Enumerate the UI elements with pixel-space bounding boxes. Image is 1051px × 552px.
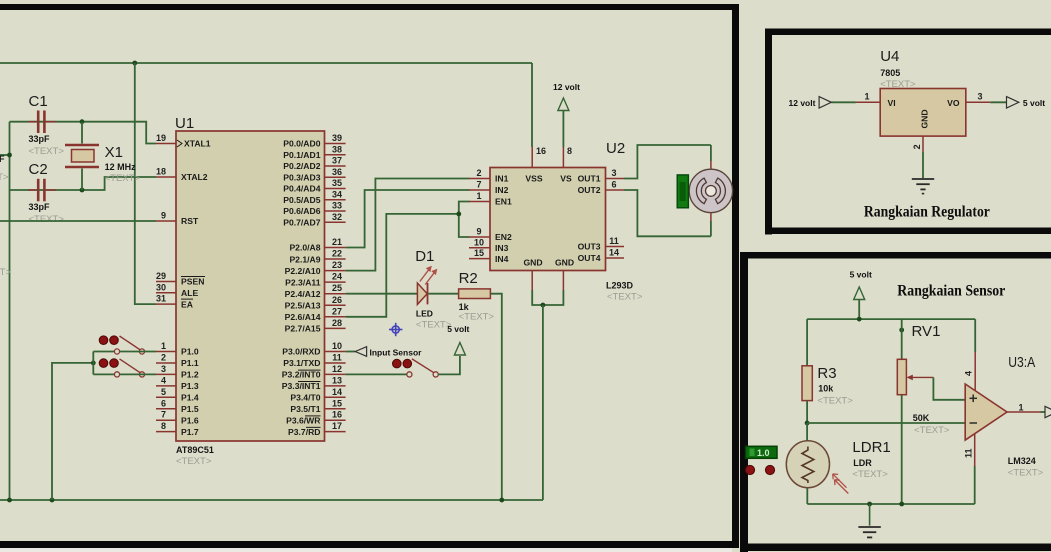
svg-text:P2.2/A10: P2.2/A10 <box>285 266 321 276</box>
svg-text:21: 21 <box>332 237 342 247</box>
svg-text:4: 4 <box>964 371 974 376</box>
wire C2 row to XTAL2 <box>10 177 157 190</box>
U1 pin 33 P0.6/AD6 <box>283 201 345 217</box>
U1 pin 16 P3.6/WR <box>286 410 345 426</box>
ground symbol regulator <box>912 179 934 194</box>
svg-text:31: 31 <box>156 294 166 304</box>
U1 pin 23 P2.2/A10 <box>285 260 346 276</box>
op-amp U3:A LM324 <box>965 354 1043 479</box>
node crystal bottom <box>80 188 85 193</box>
wire RV1 wiper to +input <box>933 377 965 399</box>
svg-text:2: 2 <box>912 144 922 149</box>
svg-text:<TEXT>: <TEXT> <box>880 79 916 90</box>
U1 pin 17 P3.7/RD <box>288 421 346 437</box>
terminal Input Sensor on P3.0 <box>346 347 423 358</box>
wire RV1 top lead <box>901 319 903 359</box>
node switch common <box>91 361 96 366</box>
svg-text:2: 2 <box>161 352 166 362</box>
svg-text:26: 26 <box>332 295 342 305</box>
svg-text:U1: U1 <box>175 115 194 132</box>
wire OUT1 to motor <box>624 145 711 179</box>
U1 pin 24 P2.3/A11 <box>285 272 345 288</box>
svg-text:12: 12 <box>332 364 342 374</box>
U1 pin 10 P3.0/RXD <box>282 341 345 357</box>
node EN junction <box>456 212 461 217</box>
svg-text:11: 11 <box>964 448 974 458</box>
svg-text:10: 10 <box>332 341 342 351</box>
svg-text:P1.7: P1.7 <box>181 427 199 437</box>
svg-text:<TEXT>: <TEXT> <box>852 469 888 480</box>
svg-text:P2.5/A13: P2.5/A13 <box>285 300 321 310</box>
svg-text:23: 23 <box>332 260 342 270</box>
U1 pin 6 P1.5 <box>156 398 199 414</box>
svg-text:OUT4: OUT4 <box>578 253 601 263</box>
node RV1 bottom <box>899 502 904 507</box>
U1 pin 4 P1.3 <box>156 375 199 391</box>
U1 pin 39 P0.0/AD0 <box>283 133 345 149</box>
svg-text:IN2: IN2 <box>495 185 509 195</box>
svg-text:32: 32 <box>332 212 342 222</box>
wire R3 bottom to node <box>806 401 808 423</box>
U3 GND pins <box>523 258 574 291</box>
svg-text:P0.4/AD4: P0.4/AD4 <box>283 184 320 194</box>
U1 pin 14 P3.4/T0 <box>290 387 345 403</box>
svg-text:<TEXT>: <TEXT> <box>914 425 950 436</box>
U1 pin 29 PSEN <box>156 271 205 287</box>
svg-text:U4: U4 <box>880 48 899 65</box>
svg-text:<TEXT>: <TEXT> <box>0 172 9 183</box>
svg-text:VO: VO <box>947 98 960 108</box>
wire LED cathode to R2 <box>428 293 458 295</box>
wire ground bottom rail <box>0 499 543 501</box>
wire R3 top lead <box>806 319 808 366</box>
svg-text:P1.2: P1.2 <box>181 370 199 380</box>
svg-text:P2.3/A11: P2.3/A11 <box>285 277 321 287</box>
U1 pin 25 P2.4/A12 <box>285 283 346 299</box>
svg-text:5 volt: 5 volt <box>447 324 469 334</box>
svg-text:IN4: IN4 <box>495 254 509 264</box>
wire switch ground vertical <box>52 363 93 500</box>
potentiometer RV1 <box>897 323 950 436</box>
U1 pin 28 P2.7/A15 <box>285 318 346 334</box>
svg-text:7: 7 <box>161 410 166 420</box>
switch SW3 (P3.2 to 5 volt) <box>393 359 439 377</box>
svg-text:1: 1 <box>864 92 869 102</box>
wire P2.2 to IN1 <box>346 179 470 271</box>
svg-text:ALE: ALE <box>181 288 198 298</box>
svg-text:LDR1: LDR1 <box>852 439 890 456</box>
svg-text:L293D: L293D <box>606 281 634 291</box>
svg-text:34: 34 <box>332 189 342 199</box>
node inverting input row <box>805 421 810 426</box>
wire VCC top rail <box>0 62 532 64</box>
wire left cap bus vertical <box>9 122 11 500</box>
svg-text:39: 39 <box>332 133 342 143</box>
U1 pin 7 P1.6 <box>156 410 199 426</box>
svg-text:30: 30 <box>156 282 166 292</box>
svg-text:<TEXT>: <TEXT> <box>459 312 495 323</box>
svg-text:LM324: LM324 <box>1008 456 1036 466</box>
U1 pin 27 P2.6/A14 <box>285 306 346 322</box>
U4 pin 2 GND wire <box>912 136 923 178</box>
regulator box frame <box>765 29 1051 235</box>
svg-text:14: 14 <box>332 387 342 397</box>
U3 pin 10 IN3 <box>469 237 509 253</box>
svg-text:EN2: EN2 <box>495 232 512 242</box>
origin marker <box>389 323 402 336</box>
svg-text:Rangkaian Sensor: Rangkaian Sensor <box>897 283 1005 300</box>
U1 pin 11 P3.1/TXD <box>283 352 345 368</box>
svg-text:U3:A: U3:A <box>1008 354 1035 371</box>
svg-text:19: 19 <box>156 133 166 143</box>
svg-text:R3: R3 <box>817 365 836 382</box>
svg-text:6: 6 <box>611 180 616 190</box>
svg-text:9: 9 <box>161 211 166 221</box>
U1 pin 2 P1.1 <box>156 352 199 368</box>
regulator U4 7805 body <box>880 48 966 136</box>
svg-text:LED: LED <box>416 309 433 319</box>
svg-text:11: 11 <box>332 352 342 362</box>
svg-text:P2.0/A8: P2.0/A8 <box>289 243 320 253</box>
wire crystal vertical leads <box>81 122 83 144</box>
U1 pin 34 P0.5/AD5 <box>283 189 345 205</box>
U1 pin 18 XTAL2 <box>156 167 208 183</box>
U1 pin 26 P2.5/A13 <box>285 295 346 311</box>
U1 pin 15 P3.5/T1 <box>290 398 345 414</box>
U1 pin 32 P0.7/AD7 <box>283 212 345 228</box>
wire P2.6 to EN junction <box>346 214 459 317</box>
svg-text:RST: RST <box>181 216 199 226</box>
U1 pin 37 P0.2/AD2 <box>283 156 345 172</box>
svg-text:<TEXT>: <TEXT> <box>105 173 141 184</box>
svg-text:3: 3 <box>161 364 166 374</box>
LED D1 <box>415 248 452 331</box>
ground symbol sensor <box>858 504 880 537</box>
svg-text:38: 38 <box>332 144 342 154</box>
svg-text:8: 8 <box>567 146 572 156</box>
svg-text:3: 3 <box>611 168 616 178</box>
wire EN1 branch <box>459 202 470 214</box>
U3 pin 16 VSS <box>525 146 546 184</box>
svg-text:D1: D1 <box>415 248 434 265</box>
svg-text:GND: GND <box>555 258 574 268</box>
resistor R2 <box>459 270 495 323</box>
svg-text:1.0: 1.0 <box>757 448 770 458</box>
wire P3.2 to switch3 <box>346 373 407 375</box>
svg-text:22: 22 <box>332 249 342 259</box>
svg-text:12 volt: 12 volt <box>789 98 816 108</box>
svg-text:1: 1 <box>1019 403 1024 413</box>
svg-text:<TEXT>: <TEXT> <box>0 267 11 278</box>
svg-text:LDR: LDR <box>853 458 872 468</box>
svg-text:36: 36 <box>332 167 342 177</box>
wire RV1 bottom lead <box>901 395 903 504</box>
U4 pin 1 VI wire <box>831 92 880 103</box>
svg-text:EN1: EN1 <box>495 197 512 207</box>
svg-text:R2: R2 <box>459 270 478 287</box>
node switch bus to ground rail <box>50 498 55 503</box>
svg-text:15: 15 <box>332 398 342 408</box>
svg-text:VSS: VSS <box>525 174 542 184</box>
crystal X1 <box>65 144 140 184</box>
node cap bus to ground rail <box>7 498 12 503</box>
svg-text:18: 18 <box>156 167 166 177</box>
svg-text:X1: X1 <box>105 144 123 161</box>
svg-text:<TEXT>: <TEXT> <box>29 214 65 225</box>
wire switch2 right to pin <box>120 373 156 375</box>
wire P2.0 to IN2 <box>346 190 470 248</box>
svg-text:OUT1: OUT1 <box>578 174 601 184</box>
U4 pin 3 VO wire <box>966 92 1007 103</box>
wire node to LDR top <box>806 423 808 441</box>
svg-text:15: 15 <box>474 248 484 258</box>
svg-text:OUT2: OUT2 <box>578 185 601 195</box>
svg-text:AT89C51: AT89C51 <box>176 445 214 455</box>
wire switch1 to P1.0 <box>93 351 114 353</box>
U3 pin 15 IN4 <box>469 248 509 264</box>
svg-text:7: 7 <box>476 180 481 190</box>
wire motor top lead <box>710 145 712 161</box>
svg-text:GND: GND <box>523 258 542 268</box>
svg-text:33pF: 33pF <box>0 154 5 164</box>
svg-text:P0.2/AD2: P0.2/AD2 <box>283 161 320 171</box>
U1 pin 35 P0.4/AD4 <box>283 178 345 194</box>
U1 pin 3 P1.2 <box>156 364 199 380</box>
wire GND pins join <box>532 290 563 305</box>
svg-text:P2.1/A9: P2.1/A9 <box>289 254 320 264</box>
svg-text:P0.5/AD5: P0.5/AD5 <box>283 195 320 205</box>
svg-text:Input Sensor: Input Sensor <box>370 347 423 357</box>
svg-text:P3.5/T1: P3.5/T1 <box>290 404 320 414</box>
svg-text:16: 16 <box>536 146 546 156</box>
wire switch common vertical <box>92 352 94 375</box>
driver U3 L293D body <box>490 168 643 303</box>
motor encoder strip <box>677 175 688 208</box>
U1 pin 8 P1.7 <box>156 421 199 437</box>
terminal 12 volt input <box>789 97 832 108</box>
svg-text:C2: C2 <box>29 161 48 178</box>
U3:A pin 11 ground <box>964 434 975 505</box>
sensor box frame <box>740 252 1051 552</box>
svg-text:XTAL2: XTAL2 <box>181 172 208 182</box>
microcontroller U1 AT89C51 body <box>175 115 325 467</box>
svg-text:1: 1 <box>161 341 166 351</box>
svg-text:P0.1/AD1: P0.1/AD1 <box>283 150 320 160</box>
svg-text:C1: C1 <box>29 93 48 110</box>
wire EA vertical <box>135 63 156 304</box>
U3 pin 14 OUT4 <box>578 248 624 264</box>
wire switch2 to P1.2 <box>93 373 114 375</box>
U3 pin 3 OUT1 <box>578 168 624 184</box>
svg-text:IN3: IN3 <box>495 243 509 253</box>
svg-text:P1.4: P1.4 <box>181 393 199 403</box>
wire LDR bottom <box>806 489 808 505</box>
U3 pin 8 VS <box>560 146 572 184</box>
svg-text:VS: VS <box>560 174 572 184</box>
power 5 volt arrow sensor <box>850 270 872 320</box>
svg-text:24: 24 <box>332 272 342 282</box>
wire EN2 branch <box>459 214 470 237</box>
wire switch1 right to pin <box>120 351 156 353</box>
wire R2 to ground rail <box>490 294 501 500</box>
U3 pin 11 OUT3 <box>578 236 624 252</box>
svg-text:P2.4/A12: P2.4/A12 <box>285 289 321 299</box>
U1 pin 36 P0.3/AD3 <box>283 167 345 183</box>
wire driver ground drop <box>542 305 544 500</box>
wire OUT2 to motor <box>624 190 711 236</box>
svg-text:P3.4/T0: P3.4/T0 <box>290 393 320 403</box>
svg-text:7805: 7805 <box>880 68 900 78</box>
node junction top rail to EA <box>132 61 137 66</box>
U3:A pin 4 power <box>964 319 976 390</box>
resistor R3 <box>802 365 853 407</box>
U3 pin 2 IN1 <box>469 168 509 184</box>
svg-text:RV1: RV1 <box>912 323 941 340</box>
switch SW2 (P1.2) <box>99 359 144 377</box>
svg-text:2: 2 <box>476 168 481 178</box>
svg-text:P0.7/AD7: P0.7/AD7 <box>283 217 320 227</box>
svg-text:P1.0: P1.0 <box>181 347 199 357</box>
svg-text:P0.6/AD6: P0.6/AD6 <box>283 206 320 216</box>
svg-text:P3.7/RD: P3.7/RD <box>288 427 320 437</box>
node R2 ground <box>499 498 504 503</box>
svg-text:25: 25 <box>332 283 342 293</box>
svg-text:P0.0/AD0: P0.0/AD0 <box>283 139 320 149</box>
terminal output right edge <box>1045 406 1051 417</box>
svg-text:6: 6 <box>161 398 166 408</box>
svg-text:27: 27 <box>332 306 342 316</box>
svg-text:50K: 50K <box>913 413 930 423</box>
svg-text:P2.6/A14: P2.6/A14 <box>285 312 321 322</box>
svg-text:1: 1 <box>476 191 481 201</box>
U1 pin 31 EA <box>156 294 193 310</box>
U1 pin 22 P2.1/A9 <box>289 249 345 265</box>
svg-text:GND: GND <box>920 109 930 128</box>
svg-text:4: 4 <box>161 375 166 385</box>
wire switch3 to 5volt <box>438 356 460 374</box>
node GND join <box>541 303 546 308</box>
main schematic frame border <box>0 4 739 552</box>
node cap bus stub to offscreen <box>0 154 10 156</box>
U3 pin 7 IN2 <box>469 180 509 196</box>
wire C1 row to XTAL1 <box>10 122 157 144</box>
svg-text:33: 33 <box>332 201 342 211</box>
wire sensor bottom rail <box>807 503 974 505</box>
U3:A pin 1 output <box>1007 403 1045 413</box>
svg-text:16: 16 <box>332 410 342 420</box>
U1 pin 9 RST <box>156 211 199 227</box>
svg-text:IN1: IN1 <box>495 174 509 184</box>
svg-text:P1.6: P1.6 <box>181 415 199 425</box>
svg-text:33pF: 33pF <box>29 134 51 144</box>
U1 pin 13 P3.3/INT1 <box>282 375 346 391</box>
capacitor C1 <box>28 93 64 157</box>
switch SW1 (P1.0) <box>99 336 144 354</box>
node 5volt to rail <box>857 317 862 322</box>
U1 pin 30 ALE <box>156 282 198 298</box>
svg-text:12 MHz: 12 MHz <box>105 162 137 172</box>
power 12 volt arrow <box>553 82 580 147</box>
power 5 volt arrow (switch) <box>447 324 469 355</box>
node RV1 top <box>899 328 904 333</box>
U1 pin 21 P2.0/A8 <box>289 237 345 253</box>
svg-text:P3.0/RXD: P3.0/RXD <box>282 347 320 357</box>
svg-text:<TEXT>: <TEXT> <box>176 456 212 467</box>
svg-text:P1.5: P1.5 <box>181 404 199 414</box>
svg-text:12 volt: 12 volt <box>553 82 580 92</box>
svg-text:P3.1/TXD: P3.1/TXD <box>283 358 320 368</box>
svg-text:P3.3/INT1: P3.3/INT1 <box>282 381 321 391</box>
partial offscreen capacitor labels <box>0 154 11 278</box>
svg-text:P2.7/A15: P2.7/A15 <box>285 324 321 334</box>
terminal 5 volt output <box>1007 97 1046 108</box>
svg-text:<TEXT>: <TEXT> <box>817 396 853 407</box>
svg-text:5 volt: 5 volt <box>1023 98 1045 108</box>
svg-text:10: 10 <box>474 237 484 247</box>
U3 pin 6 OUT2 <box>578 180 624 196</box>
svg-text:OUT3: OUT3 <box>578 242 601 252</box>
svg-text:37: 37 <box>332 156 342 166</box>
motor U2 <box>606 140 733 213</box>
svg-text:3: 3 <box>978 92 983 102</box>
svg-text:29: 29 <box>156 271 166 281</box>
wire inverting input row <box>807 422 965 424</box>
wire motor bottom lead <box>710 212 712 221</box>
svg-text:<TEXT>: <TEXT> <box>1008 468 1044 479</box>
wire P2.4 to LED anode <box>346 293 418 295</box>
U1 pin 19 XTAL1 <box>156 133 211 149</box>
svg-text:33pF: 33pF <box>29 202 51 212</box>
svg-text:<TEXT>: <TEXT> <box>29 146 65 157</box>
node ground stem <box>867 502 872 507</box>
svg-text:1k: 1k <box>459 302 470 312</box>
svg-text:VI: VI <box>888 98 896 108</box>
svg-text:XTAL1: XTAL1 <box>184 139 211 149</box>
svg-text:28: 28 <box>332 318 342 328</box>
svg-text:PSEN: PSEN <box>181 277 204 287</box>
svg-text:P3.2/INT0: P3.2/INT0 <box>282 370 321 380</box>
capacitor C2 <box>28 161 64 225</box>
U3 pin 9 EN2 <box>469 227 512 243</box>
svg-text:P0.3/AD3: P0.3/AD3 <box>283 172 320 182</box>
wire sensor top rail <box>807 318 975 320</box>
svg-text:5: 5 <box>161 387 166 397</box>
svg-text:13: 13 <box>332 375 342 385</box>
U1 pin 1 P1.0 <box>156 341 199 357</box>
indicator red dots <box>745 465 774 474</box>
svg-text:P1.3: P1.3 <box>181 381 199 391</box>
svg-text:11: 11 <box>609 236 619 246</box>
svg-text:P3.6/WR: P3.6/WR <box>286 415 321 425</box>
wire RST from left edge <box>0 220 156 222</box>
svg-text:P1.1: P1.1 <box>181 358 199 368</box>
svg-text:10k: 10k <box>818 384 834 394</box>
node crystal top <box>80 119 85 124</box>
svg-text:Rangkaian Regulator: Rangkaian Regulator <box>864 204 990 221</box>
U1 pin 38 P0.1/AD1 <box>283 144 345 160</box>
U1 pin 5 P1.4 <box>156 387 199 403</box>
svg-text:5 volt: 5 volt <box>850 270 872 280</box>
svg-text:14: 14 <box>609 248 619 258</box>
svg-text:U2: U2 <box>606 140 625 157</box>
wire VSS drop to U3 driver pin16 <box>531 63 533 147</box>
svg-text:17: 17 <box>332 421 342 431</box>
LDR1 <box>786 439 890 494</box>
svg-text:9: 9 <box>476 227 481 237</box>
U1 pin 12 P3.2/INT0 <box>282 364 346 380</box>
svg-text:35: 35 <box>332 178 342 188</box>
svg-text:EA: EA <box>181 299 193 309</box>
